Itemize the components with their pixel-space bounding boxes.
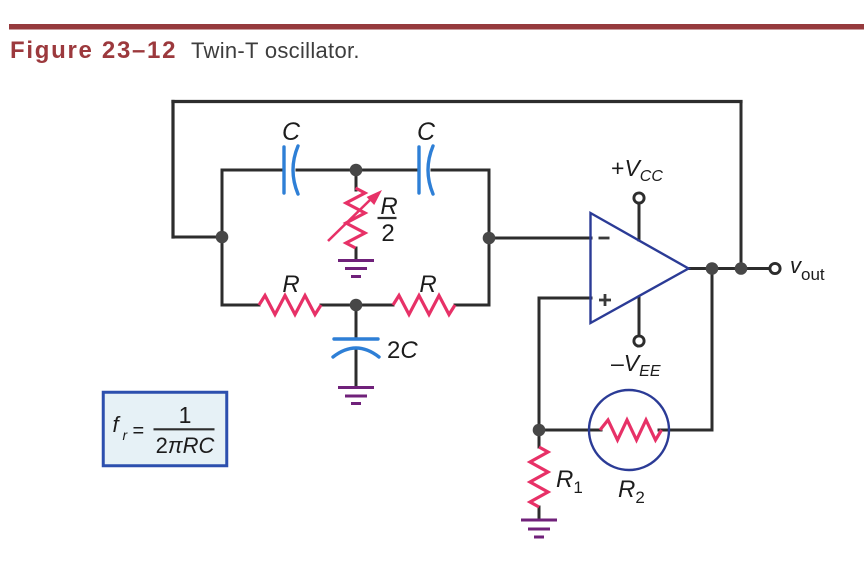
svg-text:R2: R2	[618, 476, 645, 507]
wire bottom row left	[222, 304, 259, 307]
capacitor C2	[419, 146, 433, 194]
wire R2 right horizontal	[659, 429, 712, 432]
resistor R1	[530, 447, 548, 507]
terminal -VEE	[634, 336, 644, 346]
resistor R/2 variable	[346, 188, 365, 248]
node F (output junction 2)	[735, 262, 748, 275]
svg-text:R: R	[419, 271, 436, 298]
svg-text:vout: vout	[790, 253, 825, 284]
wire R2 right vertical	[711, 269, 714, 431]
arrow of variable resistor R/2	[328, 190, 382, 241]
wire twin-T left vertical	[221, 170, 224, 305]
op-amp U1	[591, 213, 689, 323]
svg-text:1: 1	[179, 402, 192, 428]
capacitor 2C	[333, 339, 379, 357]
svg-text:R1: R1	[556, 466, 583, 497]
node B (top row junction)	[350, 164, 363, 177]
node C (twin-T output junction)	[483, 232, 496, 245]
svg-text:=: =	[133, 420, 145, 442]
formula box fr = 1/(2piRC)	[103, 392, 227, 466]
node G (R1 R2 junction)	[533, 424, 546, 437]
svg-text:–VEE: –VEE	[611, 350, 661, 380]
svg-text:2: 2	[381, 220, 394, 247]
svg-text:Twin-T oscillator.: Twin-T oscillator.	[191, 38, 360, 63]
node A (left feedback junction)	[216, 231, 229, 244]
wire left feedback vertical	[171, 102, 174, 238]
wire R/2 top lead	[355, 176, 358, 190]
node E (output junction 1)	[706, 262, 719, 275]
wire top feedback	[173, 100, 741, 103]
ground below R1	[521, 520, 557, 537]
wire VCC lead	[638, 204, 641, 240]
svg-text:R: R	[282, 271, 299, 298]
resistor R right	[393, 296, 455, 315]
wire right feedback vertical	[740, 102, 743, 269]
wire top row middle	[297, 169, 418, 172]
wire R1 bottom lead	[538, 507, 541, 519]
ground below 2C	[338, 388, 374, 404]
label R/2	[378, 193, 398, 247]
wire 2C bottom lead	[355, 349, 358, 385]
svg-text:2πRC: 2πRC	[156, 433, 215, 458]
capacitor C1	[284, 146, 298, 194]
terminal vout	[770, 263, 780, 273]
wire noninverting input	[539, 297, 591, 300]
wire left feedback horizontal	[173, 236, 222, 239]
svg-text:2C: 2C	[387, 337, 418, 364]
wire output	[688, 267, 769, 270]
header rule	[9, 24, 864, 30]
svg-text:C: C	[282, 118, 301, 146]
resistor R left	[259, 296, 321, 315]
wire inverting input	[489, 237, 591, 240]
wire noninverting feedback vertical	[538, 298, 541, 430]
wire twin-T right vertical	[488, 170, 491, 305]
svg-text:Figure 23–12: Figure 23–12	[10, 37, 177, 64]
wire R2 left	[539, 429, 601, 432]
svg-text:C: C	[417, 118, 436, 146]
wire R/2 bottom lead	[355, 248, 358, 258]
wire bottom row middle	[321, 304, 393, 307]
wire top row left	[222, 169, 283, 172]
svg-text:+VCC: +VCC	[611, 155, 663, 185]
terminal +VCC	[634, 193, 644, 203]
wire 2C top lead	[355, 311, 358, 338]
wire R1 top lead	[538, 430, 541, 447]
wire bottom row right	[455, 304, 489, 307]
wire top row right	[432, 169, 489, 172]
resistor R2 circle	[589, 390, 669, 470]
node D (bottom row junction)	[350, 299, 363, 312]
ground below R/2	[338, 261, 374, 277]
svg-text:R: R	[380, 193, 397, 220]
resistor R2	[600, 420, 662, 440]
wire VEE lead	[638, 297, 641, 335]
